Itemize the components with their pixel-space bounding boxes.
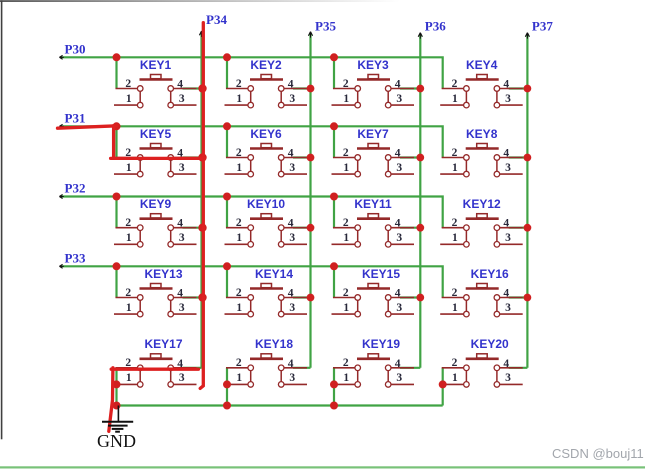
pin 3 lead <box>500 243 523 245</box>
contact circles <box>464 365 470 371</box>
svg-text:1: 1 <box>343 232 349 244</box>
svg-text:2: 2 <box>236 78 242 90</box>
contact circles <box>248 365 254 371</box>
pin 1 lead <box>225 313 248 315</box>
contact bars <box>250 228 252 245</box>
svg-text:2: 2 <box>125 287 131 299</box>
key switch KEY5 <box>114 127 202 177</box>
pin 4 lead <box>284 227 307 229</box>
wire drop to KEY14 pin2 <box>226 266 228 297</box>
svg-text:KEY13: KEY13 <box>144 267 182 281</box>
contact bars <box>357 89 359 106</box>
key switch KEY4 <box>440 58 527 108</box>
svg-text:KEY6: KEY6 <box>250 127 282 141</box>
pin 3 lead <box>500 383 523 385</box>
wire pin4 to column <box>509 296 528 298</box>
svg-text:KEY17: KEY17 <box>144 337 182 351</box>
port arrow P36 <box>418 33 422 39</box>
contact bars <box>357 368 359 385</box>
svg-text:CSDN @bouj11: CSDN @bouj11 <box>552 446 644 461</box>
junction dots on P36 column (pin4 taps) <box>416 85 424 93</box>
pin 4 lead <box>174 157 197 159</box>
highlight trace KEY17 to GND <box>109 368 113 432</box>
svg-text:4: 4 <box>288 288 294 300</box>
pin 1 lead <box>332 243 355 245</box>
svg-text:3: 3 <box>179 162 185 174</box>
wire P35 column line <box>309 34 311 368</box>
junction dots on P33 row <box>113 262 121 270</box>
pin 1 lead <box>114 313 137 315</box>
contact bars <box>250 158 252 175</box>
button actuator bar <box>466 78 499 81</box>
svg-text:1: 1 <box>236 232 242 244</box>
contact bars <box>139 228 141 245</box>
pin 1 lead <box>440 173 463 175</box>
svg-text:P36: P36 <box>425 19 446 34</box>
wire drop to KEY10 pin2 <box>226 197 228 228</box>
wire pin4 to column <box>293 227 311 229</box>
svg-text:3: 3 <box>396 302 402 314</box>
svg-text:2: 2 <box>343 147 349 159</box>
highlight trace KEY5 drop <box>112 126 115 159</box>
pin 1 lead <box>440 313 463 315</box>
pin 4 lead <box>391 297 414 299</box>
wire pin4 to column <box>400 296 420 298</box>
wire P36 column line <box>419 35 421 368</box>
svg-text:2: 2 <box>452 287 458 299</box>
svg-text:KEY16: KEY16 <box>471 267 509 281</box>
key switch KEY19 <box>332 337 421 387</box>
pin 3 lead <box>174 383 197 385</box>
svg-text:1: 1 <box>236 162 242 174</box>
key switch KEY7 <box>332 127 421 177</box>
button actuator bar <box>357 287 390 290</box>
key switch KEY9 <box>114 197 202 247</box>
button actuator bar <box>466 287 499 290</box>
key switch KEY12 <box>440 197 527 247</box>
highlight trace on P31 row <box>58 126 118 128</box>
svg-text:P37: P37 <box>532 19 553 34</box>
contact circles <box>137 86 143 92</box>
svg-text:KEY7: KEY7 <box>357 127 389 141</box>
button actuator bar <box>140 287 173 290</box>
pin 2 lead <box>226 88 248 90</box>
pin 4 lead <box>500 157 523 159</box>
svg-text:1: 1 <box>343 162 349 174</box>
contact circles <box>248 295 254 301</box>
wire drop to KEY7 pin2 <box>333 126 335 157</box>
svg-text:KEY14: KEY14 <box>255 267 293 281</box>
svg-text:4: 4 <box>395 148 401 160</box>
svg-text:1: 1 <box>452 93 458 105</box>
svg-text:3: 3 <box>179 93 185 105</box>
contact bars <box>357 298 359 315</box>
key switch KEY3 <box>332 58 421 108</box>
button actuator bar <box>250 217 283 220</box>
svg-text:2: 2 <box>452 78 458 90</box>
button actuator bar <box>357 357 390 360</box>
svg-text:1: 1 <box>343 372 349 384</box>
pin 1 lead <box>114 243 137 245</box>
wire pin4 to column <box>183 227 202 229</box>
svg-text:2: 2 <box>343 357 349 369</box>
svg-text:1: 1 <box>452 232 458 244</box>
svg-text:3: 3 <box>179 302 185 314</box>
pin 1 lead <box>225 243 248 245</box>
wire KEY17 to ground bus <box>115 368 117 406</box>
pin 2 lead <box>333 367 355 369</box>
contact bars <box>357 228 359 245</box>
contact bars <box>465 158 467 175</box>
svg-text:2: 2 <box>236 217 242 229</box>
svg-text:1: 1 <box>343 302 349 314</box>
contact circles <box>248 86 254 92</box>
wire pin4 to column <box>183 156 202 158</box>
svg-text:4: 4 <box>503 288 509 300</box>
wire pin4 to column <box>509 156 528 158</box>
svg-text:4: 4 <box>503 148 509 160</box>
pin 1 lead <box>332 104 355 106</box>
svg-text:1: 1 <box>452 372 458 384</box>
svg-text:P31: P31 <box>65 110 86 125</box>
pin 4 lead <box>284 297 307 299</box>
contact bars <box>465 368 467 385</box>
wire pin4 to column <box>509 367 528 369</box>
pin 2 lead <box>116 297 138 299</box>
contact circles <box>137 225 143 231</box>
svg-text:2: 2 <box>236 357 242 369</box>
svg-text:3: 3 <box>289 302 295 314</box>
wire pin4 to column <box>293 367 311 369</box>
svg-text:3: 3 <box>289 162 295 174</box>
port arrow P33 <box>59 264 63 268</box>
contact bars <box>139 298 141 315</box>
svg-text:4: 4 <box>503 218 509 230</box>
contact bars <box>250 89 252 106</box>
svg-text:KEY9: KEY9 <box>140 197 172 211</box>
pin 2 lead <box>442 297 464 299</box>
pin 3 lead <box>174 173 197 175</box>
contact circles <box>248 155 254 161</box>
contact circles <box>355 155 361 161</box>
svg-text:3: 3 <box>179 232 185 244</box>
svg-text:3: 3 <box>396 232 402 244</box>
pin 2 lead <box>116 157 138 159</box>
wire pin4 to column <box>509 227 528 229</box>
port arrow P31 <box>59 124 63 128</box>
svg-text:1: 1 <box>126 232 132 244</box>
key switch KEY6 <box>225 127 311 177</box>
contact circles <box>355 295 361 301</box>
svg-text:KEY11: KEY11 <box>354 197 392 211</box>
wire drop to KEY13 pin2 <box>115 266 117 297</box>
wire KEY20 to ground bus <box>442 368 444 406</box>
pin 2 lead <box>333 297 355 299</box>
key switch KEY20 <box>440 337 527 387</box>
junction dots on P34 column (pin4 taps) <box>198 84 206 92</box>
button actuator bar <box>250 287 283 290</box>
svg-text:3: 3 <box>396 93 402 105</box>
key switch KEY17 <box>114 337 202 387</box>
pin 4 lead <box>174 227 197 229</box>
pin 2 lead <box>226 297 248 299</box>
pin 2 lead <box>333 157 355 159</box>
svg-text:3: 3 <box>396 162 402 174</box>
pin 1 lead <box>225 173 248 175</box>
svg-text:KEY12: KEY12 <box>463 197 501 211</box>
svg-text:1: 1 <box>126 162 132 174</box>
wire KEY19 to ground bus <box>333 368 335 406</box>
pin 2 lead <box>116 367 138 369</box>
svg-text:P34: P34 <box>206 12 227 27</box>
svg-text:KEY4: KEY4 <box>466 58 498 72</box>
button actuator bar <box>140 217 173 220</box>
port arrow P32 <box>59 195 63 199</box>
button actuator bar <box>250 357 283 360</box>
contact bars <box>465 228 467 245</box>
svg-text:2: 2 <box>452 147 458 159</box>
pin 1 lead <box>440 104 463 106</box>
pin 3 lead <box>500 104 523 106</box>
key switch KEY13 <box>114 267 202 317</box>
port arrow P34 <box>199 31 203 37</box>
svg-text:3: 3 <box>289 93 295 105</box>
svg-text:4: 4 <box>288 358 294 370</box>
pin 2 lead <box>442 157 464 159</box>
wire drop to KEY6 pin2 <box>226 126 228 157</box>
svg-text:1: 1 <box>126 372 132 384</box>
wire pin4 to column <box>183 296 202 298</box>
pin 2 lead <box>116 88 138 90</box>
button actuator bar <box>140 147 173 150</box>
svg-text:2: 2 <box>452 357 458 369</box>
svg-text:P35: P35 <box>315 19 336 34</box>
key switch KEY1 <box>114 58 202 108</box>
svg-text:KEY2: KEY2 <box>250 58 282 72</box>
pin 1 lead <box>440 243 463 245</box>
pin 4 lead <box>174 297 197 299</box>
pin 3 lead <box>284 313 307 315</box>
svg-text:2: 2 <box>343 217 349 229</box>
svg-text:3: 3 <box>505 162 511 174</box>
svg-text:P33: P33 <box>65 250 86 265</box>
button actuator bar <box>140 78 173 81</box>
button actuator bar <box>357 147 390 150</box>
pin 2 lead <box>442 88 464 90</box>
wire pin4 to column <box>400 87 420 89</box>
pin 1 lead <box>332 313 355 315</box>
pin 4 lead <box>391 157 414 159</box>
key switch KEY10 <box>225 197 311 247</box>
svg-text:1: 1 <box>236 302 242 314</box>
button actuator bar <box>357 217 390 220</box>
svg-text:1: 1 <box>452 162 458 174</box>
button actuator bar <box>357 78 390 81</box>
wire drop to KEY9 pin2 <box>115 197 117 228</box>
pin 4 lead <box>391 227 414 229</box>
svg-text:GND: GND <box>97 431 136 451</box>
wire drop to KEY15 pin2 <box>333 266 335 297</box>
junction dots on P37 column (pin4 taps) <box>524 85 532 93</box>
wire drop to KEY1 pin2 <box>115 57 117 88</box>
svg-text:4: 4 <box>395 358 401 370</box>
pin 1 lead <box>332 173 355 175</box>
svg-text:3: 3 <box>505 93 511 105</box>
wire pin4 to column <box>400 156 420 158</box>
key switch KEY8 <box>440 127 527 177</box>
button actuator bar <box>140 357 173 360</box>
key switch KEY2 <box>225 58 311 108</box>
pin 2 lead <box>442 367 464 369</box>
pin 1 lead <box>114 173 137 175</box>
svg-text:KEY20: KEY20 <box>471 337 509 351</box>
contact circles <box>248 225 254 231</box>
contact circles <box>137 295 143 301</box>
junction dots on P30 row <box>113 53 121 61</box>
pin 3 lead <box>174 243 197 245</box>
svg-text:P30: P30 <box>65 41 86 56</box>
contact bars <box>465 298 467 315</box>
contact circles <box>355 365 361 371</box>
wire P31 row line <box>62 126 443 157</box>
contact bars <box>250 368 252 385</box>
svg-text:4: 4 <box>177 218 183 230</box>
junction dots row5 pin1 taps <box>113 380 121 388</box>
pin 4 lead <box>391 88 414 90</box>
svg-text:4: 4 <box>288 79 294 91</box>
svg-text:KEY15: KEY15 <box>362 267 400 281</box>
pin 1 lead <box>332 383 355 385</box>
svg-text:4: 4 <box>288 218 294 230</box>
wire P33 row line <box>62 266 443 297</box>
pin 3 lead <box>500 313 523 315</box>
pin 4 lead <box>500 297 523 299</box>
pin 3 lead <box>284 173 307 175</box>
pin 1 lead <box>114 383 137 385</box>
button actuator bar <box>466 147 499 150</box>
svg-text:2: 2 <box>125 78 131 90</box>
pin 4 lead <box>500 367 523 369</box>
contact circles <box>137 365 143 371</box>
contact circles <box>464 155 470 161</box>
svg-text:1: 1 <box>126 93 132 105</box>
ground <box>102 406 133 432</box>
svg-text:3: 3 <box>179 372 185 384</box>
key switch KEY16 <box>440 267 527 317</box>
contact circles <box>464 86 470 92</box>
wire pin4 to column <box>183 87 202 89</box>
contact circles <box>464 295 470 301</box>
port arrow P30 <box>59 55 63 59</box>
svg-text:2: 2 <box>343 287 349 299</box>
contact circles <box>137 155 143 161</box>
pin 3 lead <box>284 104 307 106</box>
contact bars <box>250 298 252 315</box>
pin 3 lead <box>391 243 414 245</box>
pin 3 lead <box>391 313 414 315</box>
wire drop to KEY3 pin2 <box>333 57 335 88</box>
wire drop to KEY5 pin2 <box>115 126 117 157</box>
pin 1 lead <box>225 104 248 106</box>
contact bars <box>139 89 141 106</box>
key switch KEY18 <box>225 337 311 387</box>
pin 2 lead <box>116 227 138 229</box>
pin 3 lead <box>284 243 307 245</box>
pin 4 lead <box>391 367 414 369</box>
contact bars <box>357 158 359 175</box>
svg-text:4: 4 <box>395 79 401 91</box>
pin 3 lead <box>391 383 414 385</box>
junction dots on P32 row <box>113 193 121 201</box>
contact bars <box>139 158 141 175</box>
svg-text:1: 1 <box>236 372 242 384</box>
contact circles <box>355 225 361 231</box>
pin 4 lead <box>284 157 307 159</box>
button actuator bar <box>250 78 283 81</box>
pin 2 lead <box>226 367 248 369</box>
svg-text:2: 2 <box>236 287 242 299</box>
wire drop to KEY11 pin2 <box>333 197 335 228</box>
wire KEY18 to ground bus <box>226 368 228 406</box>
key switch KEY15 <box>332 267 421 317</box>
junction dots on ground bus <box>113 402 121 410</box>
highlight trace KEY17 row <box>111 368 198 371</box>
pin 3 lead <box>500 173 523 175</box>
svg-text:3: 3 <box>289 232 295 244</box>
wire pin4 to column <box>293 156 311 158</box>
port arrow P35 <box>308 32 312 38</box>
svg-text:KEY8: KEY8 <box>466 127 498 141</box>
svg-text:4: 4 <box>395 288 401 300</box>
svg-text:3: 3 <box>396 372 402 384</box>
svg-text:1: 1 <box>236 93 242 105</box>
pin 2 lead <box>333 88 355 90</box>
contact circles <box>464 225 470 231</box>
pin 4 lead <box>500 88 523 90</box>
wire pin4 to column <box>183 367 202 369</box>
svg-text:KEY3: KEY3 <box>357 58 389 72</box>
key switch KEY11 <box>332 197 421 247</box>
svg-text:4: 4 <box>503 79 509 91</box>
pin 2 lead <box>333 227 355 229</box>
pin 2 lead <box>226 227 248 229</box>
svg-text:4: 4 <box>177 288 183 300</box>
key switch KEY14 <box>225 267 311 317</box>
highlight trace KEY5 row <box>111 157 205 160</box>
svg-text:1: 1 <box>126 302 132 314</box>
svg-text:1: 1 <box>452 302 458 314</box>
svg-text:4: 4 <box>503 358 509 370</box>
svg-text:KEY19: KEY19 <box>362 337 400 351</box>
svg-text:3: 3 <box>505 302 511 314</box>
wire P37 column line <box>526 35 528 368</box>
contact bars <box>465 89 467 106</box>
svg-text:2: 2 <box>452 217 458 229</box>
pin 3 lead <box>174 104 197 106</box>
contact bars <box>139 368 141 385</box>
wire pin4 to column <box>293 296 311 298</box>
svg-text:KEY18: KEY18 <box>255 337 293 351</box>
wire pin4 to column <box>400 227 420 229</box>
button actuator bar <box>466 217 499 220</box>
svg-text:2: 2 <box>125 217 131 229</box>
pin 4 lead <box>174 367 197 369</box>
button actuator bar <box>250 147 283 150</box>
pin 3 lead <box>391 104 414 106</box>
pin 4 lead <box>174 88 197 90</box>
pin 3 lead <box>284 383 307 385</box>
pin 4 lead <box>284 367 307 369</box>
